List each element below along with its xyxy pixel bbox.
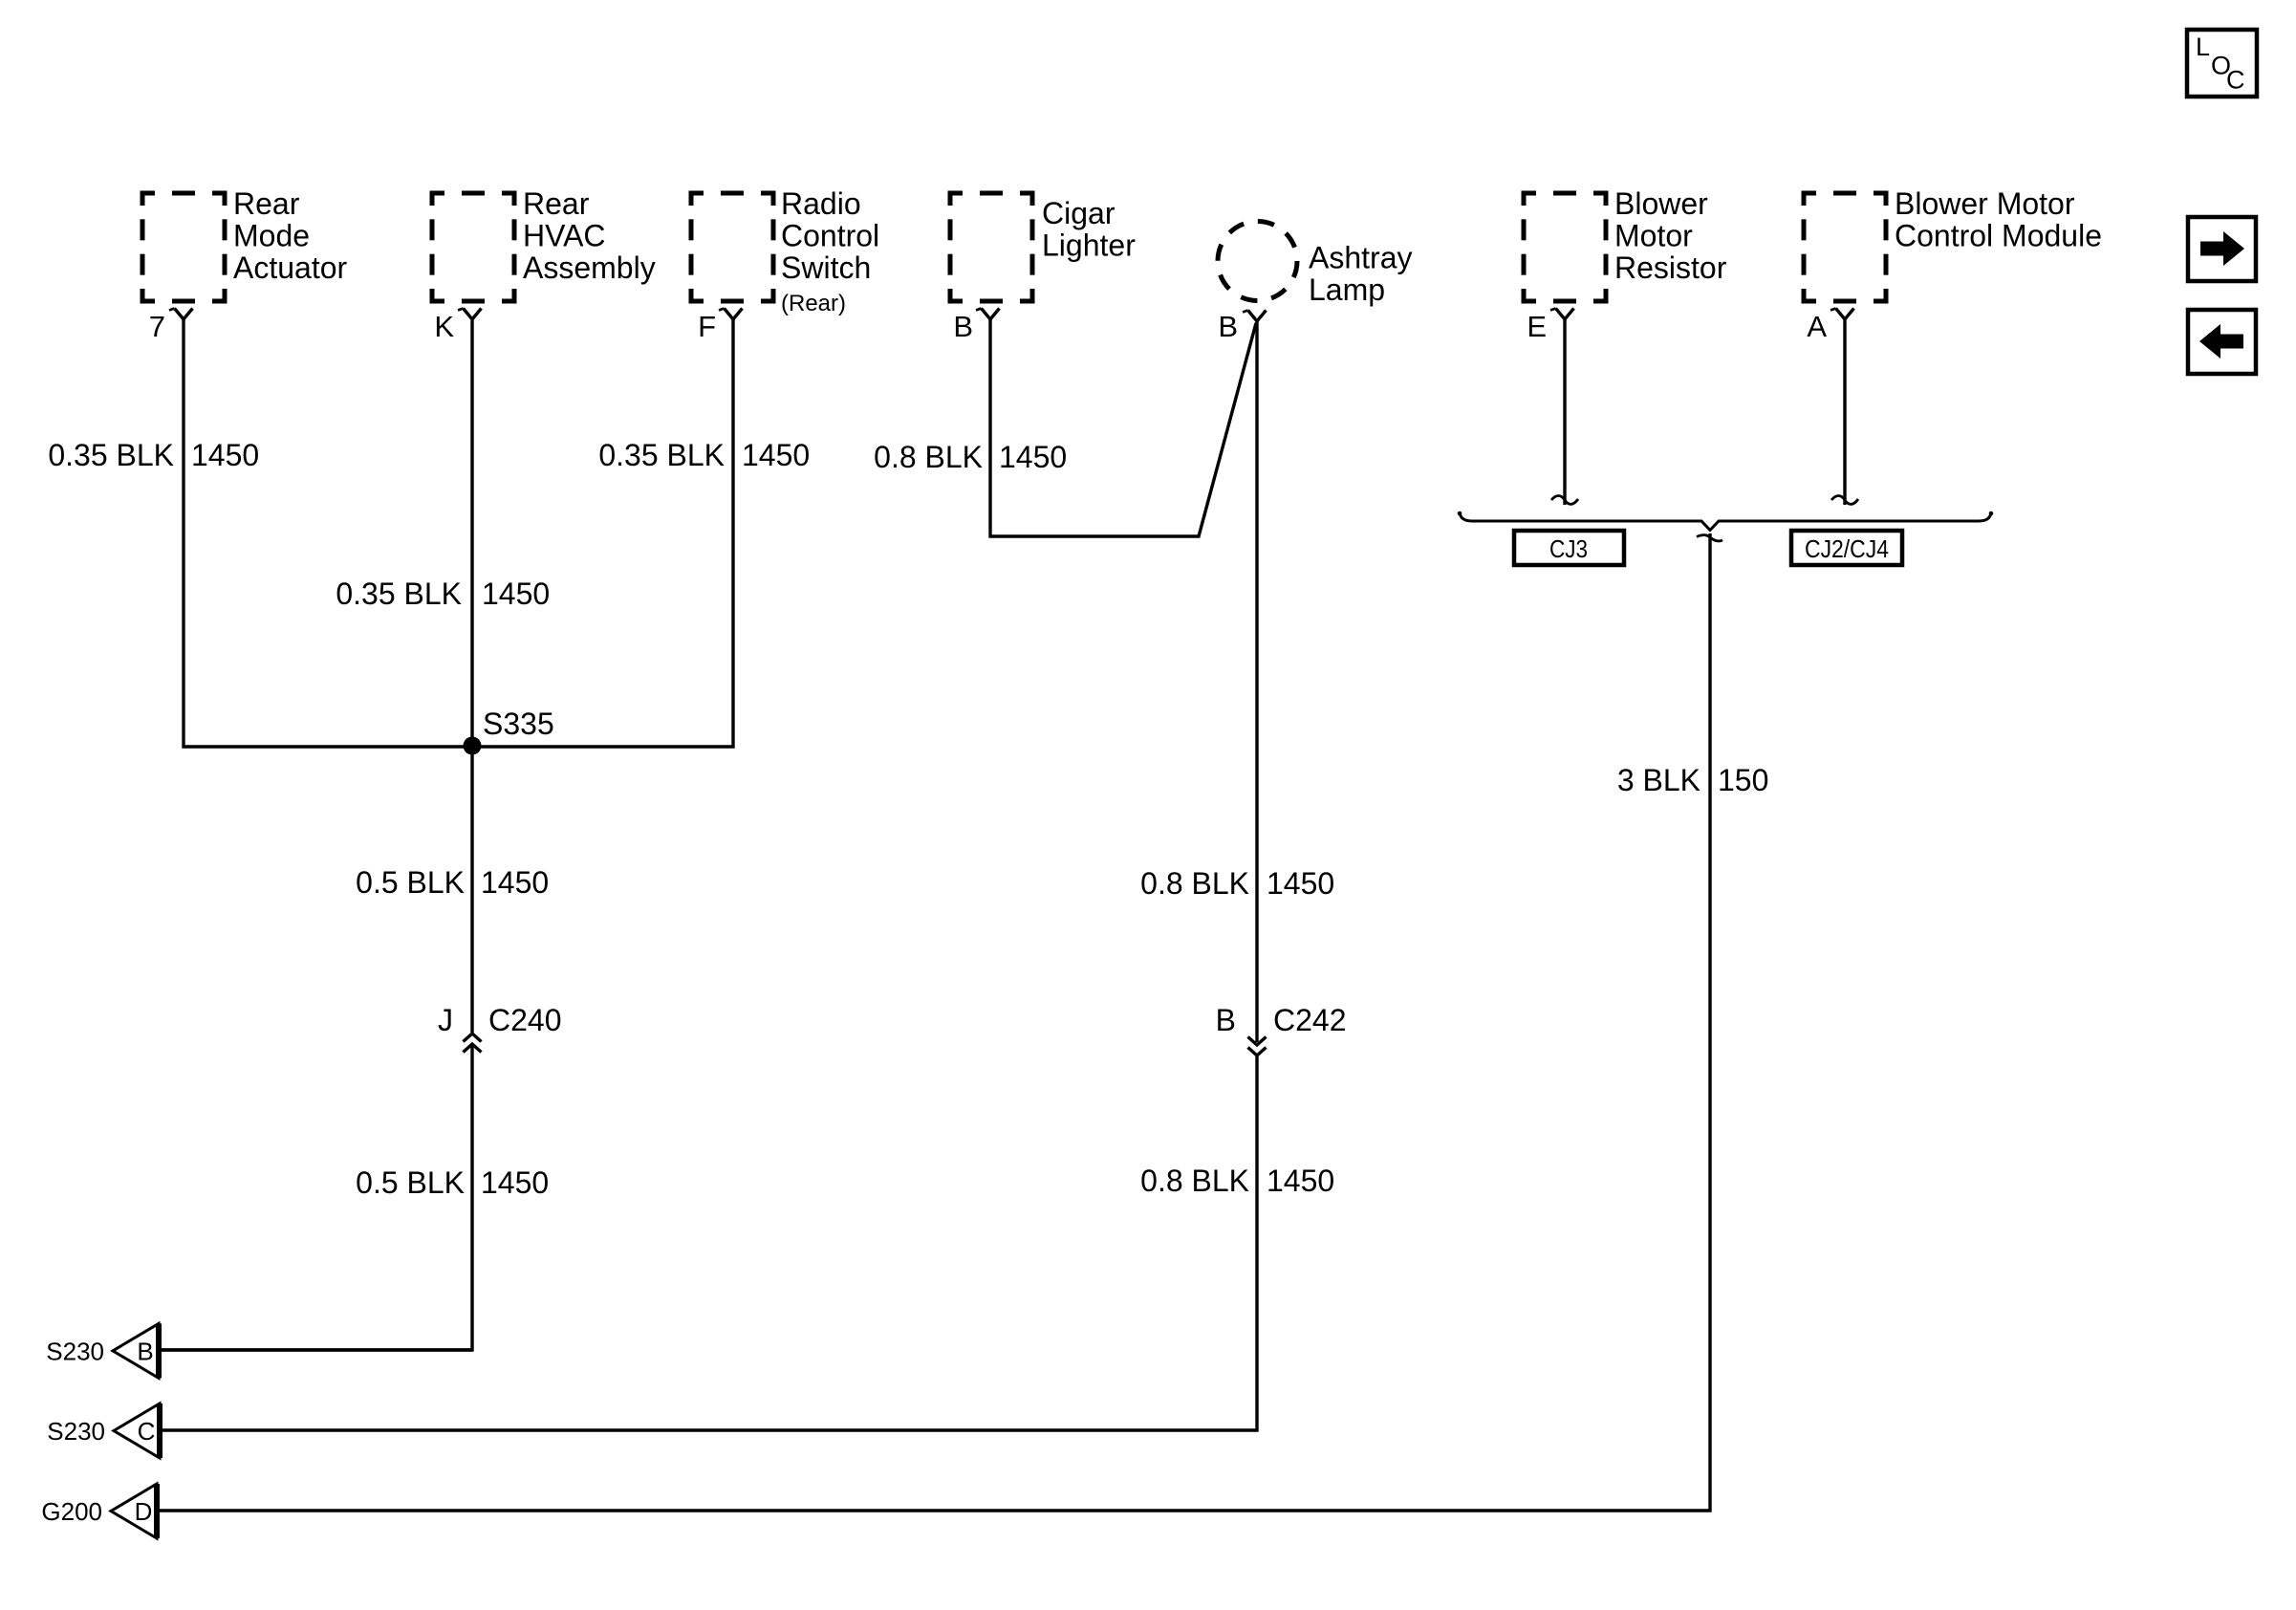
svg-text:Ashtray: Ashtray: [1309, 241, 1412, 275]
splice S335 junction dot: [464, 737, 482, 755]
connector box: Cigar Lighter: [950, 193, 1032, 301]
connector box: Blower Motor Resistor: [1524, 193, 1606, 301]
pin B of Cigar Lighter: [953, 309, 999, 344]
label: 0.8 BLK 1450 (above C242): [1140, 866, 1334, 901]
wire break squiggle (below brace): [1697, 535, 1722, 541]
svg-text:Actuator: Actuator: [233, 250, 348, 285]
svg-text:J: J: [438, 1003, 453, 1037]
svg-text:C: C: [138, 1417, 156, 1446]
pin E of Blower Motor Resistor: [1527, 309, 1573, 344]
label: Rear HVAC Assembly: [523, 186, 656, 285]
svg-text:F: F: [698, 310, 716, 343]
svg-text:B: B: [953, 310, 973, 343]
svg-text:0.35 BLK: 0.35 BLK: [598, 438, 725, 472]
svg-text:1450: 1450: [1267, 1164, 1334, 1198]
label box CJ2/CJ4: [1791, 531, 1902, 565]
pin A of Blower Motor Control Module: [1807, 309, 1853, 344]
svg-text:0.5 BLK: 0.5 BLK: [356, 1165, 465, 1200]
wire: pin K down to splice S335 and on to connector C240: [470, 319, 473, 1033]
svg-text:Rear: Rear: [523, 186, 590, 221]
off-page triangle S230 C: [47, 1403, 160, 1458]
label S335: [483, 707, 554, 741]
svg-text:Control: Control: [781, 219, 879, 253]
connector C242 (double chevron, pointing down): [1248, 1037, 1267, 1056]
svg-text:Lamp: Lamp: [1309, 272, 1385, 307]
off-page triangle G200 D: [41, 1484, 157, 1538]
svg-text:150: 150: [1718, 763, 1768, 797]
label: 0.8 BLK 1450 (cigar lighter wire): [874, 440, 1067, 474]
svg-text:Assembly: Assembly: [523, 250, 656, 285]
svg-text:B: B: [1216, 1003, 1236, 1037]
svg-text:A: A: [1807, 310, 1827, 343]
svg-text:1450: 1450: [742, 438, 810, 472]
wire: below C240 down then left to S230 B: [161, 1044, 472, 1350]
svg-text:Mode: Mode: [233, 219, 310, 253]
svg-text:1450: 1450: [481, 865, 549, 900]
svg-text:1450: 1450: [999, 440, 1067, 474]
icon: right arrow box: [2188, 217, 2256, 281]
svg-text:Blower: Blower: [1614, 186, 1708, 221]
svg-text:3 BLK: 3 BLK: [1617, 763, 1700, 797]
svg-text:C242: C242: [1273, 1003, 1347, 1037]
svg-text:0.8 BLK: 0.8 BLK: [874, 440, 983, 474]
connector box: Rear Mode Actuator: [142, 193, 225, 301]
wire: S230 B horizontal: [161, 1348, 472, 1351]
label: 0.35 BLK 1450 (pin 7 wire): [48, 438, 259, 472]
svg-text:Motor: Motor: [1614, 219, 1693, 253]
svg-text:Switch: Switch: [781, 250, 871, 285]
svg-text:C: C: [2226, 66, 2245, 95]
label: B C242: [1216, 1003, 1347, 1037]
wire: Cigar Lighter pin B down, right, diagonal up to Ashtray pin: [990, 319, 1256, 536]
svg-text:C240: C240: [488, 1003, 562, 1037]
pin B of Ashtray Lamp: [1218, 310, 1266, 343]
label: 0.5 BLK 1450 (above C240): [356, 865, 549, 900]
svg-text:Resistor: Resistor: [1614, 250, 1727, 285]
off-page triangle S230 B: [46, 1323, 159, 1378]
label: 0.35 BLK 1450 (pin K wire): [336, 577, 550, 611]
label: 0.5 BLK 1450 (below C240): [356, 1165, 549, 1200]
svg-text:S335: S335: [483, 707, 554, 741]
svg-text:Lighter: Lighter: [1042, 228, 1136, 263]
label: 0.35 BLK 1450 (pin F wire): [598, 438, 810, 472]
label: 0.8 BLK 1450 (below C242): [1140, 1164, 1334, 1198]
svg-text:(Rear): (Rear): [781, 291, 846, 316]
connector box: Radio Control Switch (Rear): [691, 193, 773, 301]
svg-text:1450: 1450: [1267, 866, 1334, 901]
pin F of Radio Control Switch: [698, 309, 742, 344]
svg-text:Control Module: Control Module: [1895, 219, 2102, 253]
lamp: Ashtray Lamp (dashed circle): [1218, 222, 1297, 301]
label: J C240: [438, 1003, 562, 1037]
wire break squiggle (A wire end): [1831, 496, 1858, 505]
svg-text:B: B: [1218, 310, 1238, 343]
label: Blower Motor Control Module: [1895, 186, 2102, 253]
label: Radio Control Switch (Rear): [781, 186, 879, 316]
svg-text:1450: 1450: [482, 577, 550, 611]
wire: 3 BLK 150 ground wire down then left to G200 D: [160, 533, 1710, 1511]
wire break squiggle (E wire end): [1551, 496, 1578, 505]
svg-text:Rear: Rear: [233, 186, 300, 221]
svg-text:K: K: [434, 310, 454, 343]
svg-text:Blower Motor: Blower Motor: [1895, 186, 2075, 221]
svg-text:0.35 BLK: 0.35 BLK: [48, 438, 174, 472]
svg-text:CJ2/CJ4: CJ2/CJ4: [1805, 534, 1889, 563]
svg-text:1450: 1450: [481, 1165, 549, 1200]
svg-text:0.35 BLK: 0.35 BLK: [336, 577, 462, 611]
wire: pin 7 down, across to pin F (ground bus): [184, 319, 733, 747]
svg-text:Radio: Radio: [781, 186, 861, 221]
connector C240 (double chevron, pointing up): [464, 1033, 482, 1053]
icon: LOC reference box: [2187, 30, 2257, 97]
connector box: Rear HVAC Assembly: [432, 193, 514, 301]
wire: Blower Motor Resistor pin E stub: [1563, 319, 1566, 505]
connector box: Blower Motor Control Module: [1804, 193, 1886, 301]
pin K of Rear HVAC Assembly: [434, 309, 481, 344]
brace: harness grouping under blower wires: [1458, 511, 1994, 531]
pin 7 of Rear Mode Actuator: [149, 309, 193, 344]
svg-text:D: D: [135, 1497, 153, 1526]
svg-text:CJ3: CJ3: [1549, 534, 1588, 563]
svg-text:7: 7: [149, 310, 165, 343]
svg-text:S230: S230: [46, 1338, 104, 1366]
label box CJ3: [1514, 531, 1624, 565]
label: Rear Mode Actuator: [233, 186, 348, 285]
wire: below C242 down then left to S230 C: [162, 1055, 1257, 1430]
label: Ashtray Lamp: [1309, 241, 1412, 308]
svg-text:S230: S230: [47, 1417, 105, 1446]
label: 3 BLK 150: [1617, 763, 1769, 797]
svg-text:B: B: [137, 1337, 153, 1365]
label: Blower Motor Resistor: [1614, 186, 1727, 285]
wire: Blower Motor Control Module pin A stub: [1843, 319, 1846, 505]
wire: Ashtray pin B down to connector C242: [1255, 321, 1258, 1042]
svg-text:0.8 BLK: 0.8 BLK: [1140, 1164, 1249, 1198]
icon: left arrow box: [2188, 310, 2256, 374]
svg-text:Cigar: Cigar: [1042, 196, 1116, 230]
svg-text:L: L: [2196, 33, 2210, 61]
svg-text:0.5 BLK: 0.5 BLK: [356, 865, 465, 900]
svg-text:HVAC: HVAC: [523, 219, 606, 253]
svg-text:0.8 BLK: 0.8 BLK: [1140, 866, 1249, 901]
svg-text:G200: G200: [41, 1497, 102, 1526]
svg-text:1450: 1450: [191, 438, 259, 472]
label: Cigar Lighter: [1042, 196, 1136, 263]
svg-text:E: E: [1527, 310, 1547, 343]
